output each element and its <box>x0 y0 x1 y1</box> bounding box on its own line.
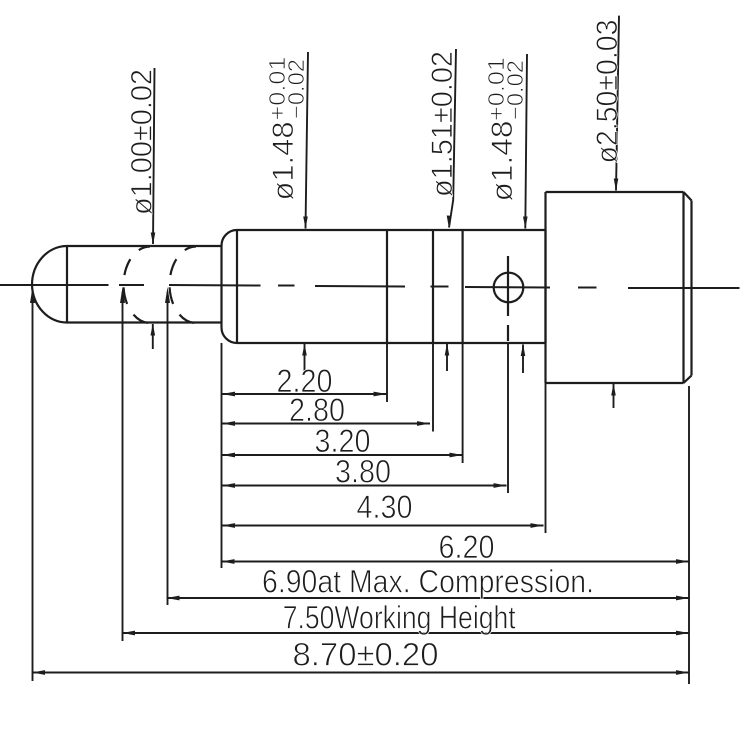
svg-text:6.90at Max. Compression.: 6.90at Max. Compression. <box>262 564 594 600</box>
svg-text:7.50Working Height: 7.50Working Height <box>283 600 516 636</box>
svg-text:−0.02: −0.02 <box>502 60 528 120</box>
svg-text:−0.02: −0.02 <box>283 59 309 119</box>
svg-text:3.80: 3.80 <box>335 454 391 490</box>
svg-text:4.30: 4.30 <box>357 489 413 525</box>
svg-text:ø1.48: ø1.48 <box>486 121 519 202</box>
svg-text:ø1.00±0.02: ø1.00±0.02 <box>126 69 159 215</box>
svg-text:ø1.51±0.02: ø1.51±0.02 <box>426 51 459 197</box>
svg-text:6.20: 6.20 <box>439 529 495 565</box>
svg-text:ø2.50±0.03: ø2.50±0.03 <box>591 20 624 164</box>
svg-text:ø1.48: ø1.48 <box>267 122 300 201</box>
svg-text:8.70±0.20: 8.70±0.20 <box>293 637 439 673</box>
